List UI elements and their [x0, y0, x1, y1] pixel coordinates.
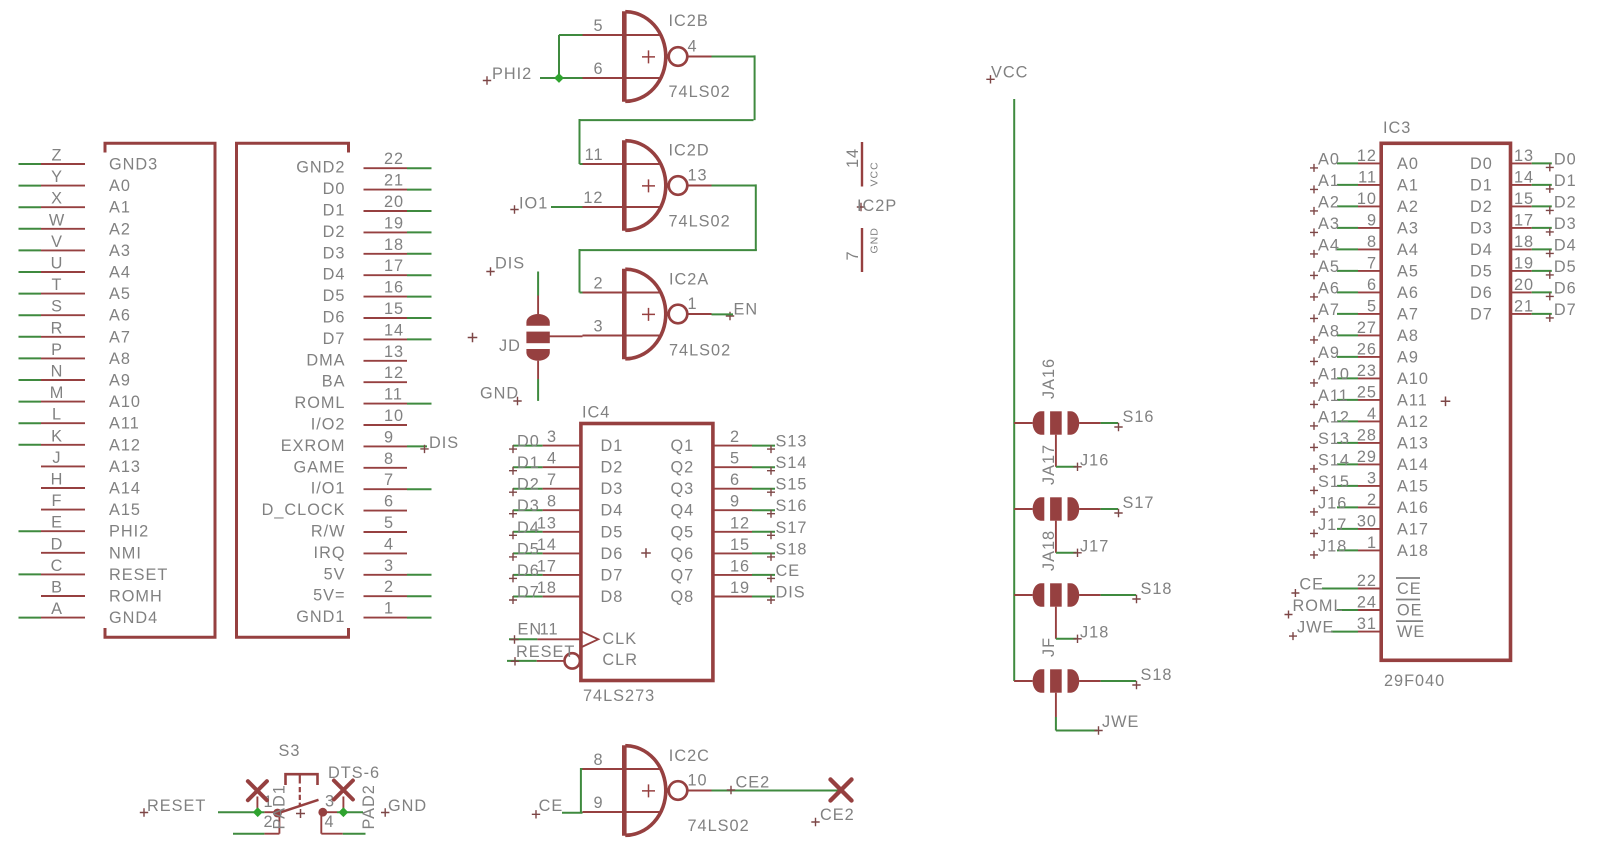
svg-text:14: 14	[844, 148, 862, 168]
svg-text:DMA: DMA	[306, 351, 345, 369]
wire IC2A output to EN label	[712, 313, 734, 315]
connector pin E (PHI2)	[19, 514, 150, 541]
svg-text:5: 5	[384, 514, 394, 532]
net label PHI2	[483, 65, 532, 85]
svg-text:A4: A4	[1318, 236, 1340, 254]
svg-text:Q8: Q8	[671, 588, 695, 606]
IC3 pin 21 D7, net D7	[1470, 297, 1577, 323]
svg-text:A0: A0	[1397, 155, 1419, 173]
svg-text:D6: D6	[517, 562, 540, 580]
svg-text:A10: A10	[109, 393, 141, 411]
IC3 pin 28 A13, net S13	[1310, 426, 1429, 452]
svg-text:VCC: VCC	[869, 161, 881, 186]
svg-text:GND: GND	[480, 385, 519, 403]
IC3 pin 15 D2, net D2	[1470, 190, 1577, 216]
IC4 pin 9 Q4, net S16	[671, 493, 808, 520]
svg-text:CE: CE	[1397, 580, 1422, 598]
svg-text:Q5: Q5	[671, 523, 695, 541]
svg-text:11: 11	[585, 146, 604, 164]
wire S3 pin 2 stub	[233, 833, 264, 835]
svg-text:3: 3	[593, 318, 603, 336]
svg-text:A4: A4	[109, 264, 131, 282]
svg-text:JA16: JA16	[1040, 358, 1058, 399]
svg-text:D2: D2	[1470, 198, 1493, 216]
junction S3 pin 1	[253, 807, 263, 817]
wire/net label S16 (right of JA16)	[1101, 408, 1155, 431]
IC3 pin 25 A11, net A11	[1310, 383, 1428, 409]
svg-text:IC2P: IC2P	[857, 197, 897, 215]
connector pin U (A4)	[19, 255, 131, 282]
IC3 pin 30 A17, net J17	[1310, 512, 1429, 538]
svg-text:D4: D4	[323, 266, 346, 284]
IC4 pin 2 Q1, net S13	[671, 428, 808, 455]
svg-text:25: 25	[1357, 383, 1377, 401]
svg-text:24: 24	[1357, 594, 1377, 612]
svg-text:19: 19	[384, 214, 404, 232]
svg-text:N: N	[51, 363, 64, 381]
svg-text:A5: A5	[1397, 262, 1419, 280]
svg-text:5: 5	[593, 17, 603, 35]
IC3 pin 26 A9, net A9	[1310, 340, 1419, 366]
IC4 pin 1 CLR, net RESET	[507, 643, 638, 669]
svg-text:RESET: RESET	[109, 566, 168, 584]
svg-text:D5: D5	[517, 540, 540, 558]
svg-text:D3: D3	[517, 497, 540, 515]
svg-text:S16: S16	[776, 497, 808, 515]
svg-text:C: C	[51, 557, 64, 575]
svg-text:7: 7	[1367, 254, 1377, 272]
svg-text:D1: D1	[1470, 176, 1493, 194]
svg-text:8: 8	[547, 493, 557, 511]
jumper JA17	[1014, 444, 1101, 521]
svg-text:R: R	[51, 319, 64, 337]
svg-text:GND1: GND1	[296, 608, 345, 626]
svg-text:15: 15	[730, 536, 750, 554]
svg-text:K: K	[51, 427, 63, 445]
svg-text:S17: S17	[776, 519, 808, 537]
svg-text:PAD1: PAD1	[271, 784, 289, 829]
no-connect X on S3 pin 3	[334, 781, 353, 800]
no-connect X on S3 pin 1	[248, 781, 267, 800]
svg-text:Q4: Q4	[671, 502, 695, 520]
svg-text:Q6: Q6	[671, 545, 695, 563]
svg-text:29F040: 29F040	[1384, 672, 1445, 690]
svg-text:Z: Z	[52, 147, 63, 165]
svg-text:A6: A6	[1397, 284, 1419, 302]
svg-text:W: W	[49, 211, 65, 229]
connector pin A (GND4)	[19, 600, 159, 627]
svg-text:18: 18	[537, 579, 557, 597]
origin cross IC3	[1441, 397, 1451, 407]
connector pin 1 (GND1)	[296, 600, 431, 627]
wire S3 pin 3 to GND label	[337, 811, 363, 813]
svg-text:28: 28	[1357, 426, 1377, 444]
svg-text:26: 26	[1357, 340, 1377, 358]
IC4 pin 12 Q5, net S17	[671, 514, 808, 541]
svg-text:L: L	[52, 406, 62, 424]
svg-text:PAD2: PAD2	[360, 784, 378, 829]
svg-text:22: 22	[384, 150, 404, 168]
svg-text:11: 11	[540, 621, 559, 639]
svg-text:D2: D2	[517, 476, 540, 494]
svg-text:RESET: RESET	[516, 643, 575, 661]
svg-text:16: 16	[730, 557, 750, 575]
connector column 2 body (pins 22..1)	[237, 143, 349, 637]
svg-text:21: 21	[1514, 297, 1534, 315]
svg-text:30: 30	[1357, 512, 1377, 530]
wire IC2C output to CE2	[712, 790, 842, 792]
svg-text:J17: J17	[1318, 516, 1347, 534]
svg-text:2: 2	[1367, 491, 1377, 509]
svg-text:A15: A15	[109, 501, 141, 519]
svg-text:20: 20	[384, 193, 404, 211]
connector pin J (A13)	[41, 449, 141, 476]
svg-text:A9: A9	[1318, 344, 1340, 362]
svg-text:A14: A14	[109, 480, 141, 498]
NOR gate IC2A (74LS02)	[583, 269, 732, 360]
IC3 pin 2 A16, net J16	[1310, 491, 1429, 517]
svg-text:S18: S18	[1141, 580, 1173, 598]
svg-text:A16: A16	[1397, 499, 1429, 517]
svg-text:E: E	[51, 514, 63, 532]
svg-text:F: F	[52, 492, 63, 510]
svg-text:H: H	[51, 471, 64, 489]
svg-text:12: 12	[384, 364, 404, 382]
svg-text:M: M	[50, 384, 65, 402]
svg-text:S15: S15	[776, 476, 808, 494]
IC3 pin 18 D4, net D4	[1470, 233, 1577, 259]
svg-text:A8: A8	[1318, 322, 1340, 340]
IC4 pin 5 Q2, net S14	[671, 450, 808, 477]
svg-text:D5: D5	[601, 523, 624, 541]
svg-text:S15: S15	[1318, 473, 1350, 491]
svg-text:S13: S13	[1318, 430, 1350, 448]
connector pin M (A10)	[19, 384, 141, 411]
connector pin P (A8)	[19, 341, 131, 368]
svg-text:29: 29	[1357, 448, 1377, 466]
wire/net label J18 (bottom of JA18)	[1056, 607, 1109, 643]
svg-text:IC2C: IC2C	[669, 747, 710, 765]
svg-text:1: 1	[1367, 534, 1377, 552]
svg-text:A9: A9	[109, 372, 131, 390]
svg-text:16: 16	[384, 279, 404, 297]
power symbol IC2P pin 7 (GND)	[844, 227, 881, 272]
svg-text:A11: A11	[109, 415, 140, 433]
svg-text:D6: D6	[601, 545, 624, 563]
svg-text:A2: A2	[1318, 193, 1340, 211]
IC4 pin 8 D4, net D3	[509, 493, 623, 520]
svg-text:A5: A5	[1318, 258, 1340, 276]
IC3 pin 12 A0, net A0	[1310, 147, 1419, 173]
IC3 pin 9 A3, net A3	[1310, 211, 1419, 237]
connector pin H (A14)	[41, 471, 141, 498]
IC4 pin 3 D1, net D0	[509, 428, 623, 455]
svg-text:A10: A10	[1318, 365, 1350, 383]
svg-text:17: 17	[1514, 211, 1534, 229]
svg-text:A11: A11	[1397, 391, 1428, 409]
svg-text:19: 19	[730, 579, 750, 597]
svg-text:S: S	[51, 298, 63, 316]
svg-text:A2: A2	[1397, 198, 1419, 216]
IC4 pin 4 D2, net D1	[509, 450, 623, 477]
svg-text:J17: J17	[1080, 538, 1109, 556]
svg-text:I/O1: I/O1	[311, 480, 346, 498]
svg-text:9: 9	[384, 428, 394, 446]
svg-text:S16: S16	[1123, 408, 1155, 426]
svg-text:D7: D7	[1554, 301, 1577, 319]
svg-text:T: T	[52, 276, 63, 294]
svg-text:IRQ: IRQ	[314, 544, 346, 562]
connector pin 15 (D6)	[323, 300, 432, 327]
IC3 pin 5 A7, net A7	[1310, 297, 1419, 323]
wire/net label S18 (right of JF)	[1101, 666, 1173, 689]
IC4 pin 15 Q6, net S18	[671, 536, 808, 563]
wire/net label JWE (bottom of JF)	[1056, 693, 1139, 735]
svg-text:A15: A15	[1397, 477, 1429, 495]
NOR gate IC2C (74LS02)	[583, 745, 750, 836]
svg-text:Y: Y	[51, 168, 63, 186]
svg-text:S13: S13	[776, 433, 808, 451]
svg-text:VCC: VCC	[991, 64, 1028, 82]
svg-text:DIS: DIS	[776, 584, 806, 602]
svg-text:8: 8	[593, 751, 603, 769]
svg-text:ROMH: ROMH	[109, 588, 163, 606]
svg-text:NMI: NMI	[109, 544, 142, 562]
svg-text:IC2D: IC2D	[669, 142, 710, 160]
svg-text:D5: D5	[323, 287, 346, 305]
svg-text:D3: D3	[1554, 215, 1577, 233]
IC3 pin 27 A8, net A8	[1310, 319, 1419, 345]
connector pin L (A11)	[19, 406, 140, 433]
IC3 pin 22 CE, net CE	[1291, 572, 1421, 598]
connector pin Z (GND3)	[19, 147, 159, 174]
svg-text:S18: S18	[776, 540, 808, 558]
IC3 pin 3 A15, net S15	[1310, 469, 1429, 495]
svg-text:D7: D7	[323, 330, 346, 348]
svg-text:A10: A10	[1397, 370, 1429, 388]
net label RESET (S3)	[140, 797, 206, 817]
IC3 pin 24 OE, net ROML	[1285, 594, 1423, 620]
svg-text:4: 4	[325, 813, 335, 831]
svg-text:A12: A12	[109, 436, 141, 454]
IC IC3 29F040 body	[1381, 143, 1510, 660]
svg-text:D: D	[51, 535, 64, 553]
svg-text:10: 10	[384, 407, 404, 425]
svg-text:JWE: JWE	[1102, 713, 1139, 731]
connector pin 8 (GAME)	[294, 450, 407, 477]
svg-text:D8: D8	[601, 588, 624, 606]
svg-text:23: 23	[1357, 362, 1377, 380]
wire DIS to JD top	[537, 272, 539, 296]
svg-text:Q7: Q7	[671, 566, 695, 584]
svg-text:21: 21	[384, 172, 404, 190]
IC4 pin 16 Q7, net CE	[671, 557, 801, 584]
connector pin 10 (I/O2)	[311, 407, 407, 434]
svg-text:V: V	[51, 233, 63, 251]
svg-text:18: 18	[1514, 233, 1534, 251]
svg-text:19: 19	[1514, 254, 1534, 272]
svg-text:4: 4	[1367, 405, 1377, 423]
svg-text:CLK: CLK	[602, 630, 637, 648]
svg-text:GND4: GND4	[109, 609, 158, 627]
connector pin T (A5)	[19, 276, 131, 303]
connector pin 9 (EXROM)	[281, 428, 427, 455]
jumper JA18	[1014, 530, 1101, 607]
svg-text:15: 15	[384, 300, 404, 318]
connector pin 11 (ROML)	[294, 386, 431, 413]
svg-text:D3: D3	[323, 244, 346, 262]
svg-text:A3: A3	[1397, 219, 1419, 237]
svg-text:A18: A18	[1397, 542, 1429, 560]
svg-text:20: 20	[1514, 276, 1534, 294]
IC4 pin 6 Q3, net S15	[671, 471, 808, 498]
svg-text:13: 13	[1514, 147, 1534, 165]
svg-text:JA17: JA17	[1040, 444, 1058, 485]
svg-text:RESET: RESET	[147, 797, 206, 815]
connector pin C (RESET)	[19, 557, 169, 584]
svg-text:D6: D6	[1554, 279, 1577, 297]
svg-text:J: J	[52, 449, 61, 467]
connector pin 16 (D5)	[323, 279, 432, 306]
svg-text:D0: D0	[1470, 155, 1493, 173]
svg-text:B: B	[51, 579, 63, 597]
label IC2P	[857, 197, 897, 215]
svg-text:D5: D5	[1470, 262, 1493, 280]
svg-text:IC4: IC4	[582, 404, 610, 422]
switch S3 (DTS-6)	[257, 742, 380, 834]
svg-text:R/W: R/W	[311, 523, 346, 541]
IC4 pin 13 D5, net D4	[509, 514, 623, 541]
svg-text:14: 14	[1514, 168, 1534, 186]
svg-text:17: 17	[537, 557, 557, 575]
IC3 pin 6 A6, net A6	[1310, 276, 1419, 302]
connector pin D (NMI)	[41, 535, 142, 562]
IC3 pin 8 A4, net A4	[1310, 233, 1419, 259]
svg-text:5: 5	[730, 450, 740, 468]
wire RESET to S3	[218, 811, 264, 813]
wire/net label J16 (bottom of JA16)	[1056, 435, 1109, 471]
svg-text:15: 15	[1514, 190, 1534, 208]
svg-text:DIS: DIS	[429, 434, 459, 452]
IC3 pin 11 A1, net A1	[1310, 168, 1419, 194]
svg-text:CE: CE	[1299, 576, 1324, 594]
junction on PHI2 net	[554, 73, 564, 83]
svg-text:31: 31	[1357, 615, 1377, 633]
svg-text:OE: OE	[1397, 602, 1423, 620]
svg-text:D3: D3	[601, 480, 624, 498]
svg-text:D4: D4	[601, 502, 624, 520]
svg-text:J18: J18	[1080, 624, 1109, 642]
svg-text:J18: J18	[1318, 537, 1347, 555]
svg-text:5V: 5V	[324, 565, 346, 583]
svg-text:J16: J16	[1080, 452, 1109, 470]
IC4 pin 7 D3, net D2	[509, 471, 623, 498]
svg-text:4: 4	[688, 38, 698, 56]
origin cross IC4	[641, 548, 651, 558]
svg-text:CE2: CE2	[820, 806, 855, 824]
IC4 pin 17 D7, net D6	[509, 557, 623, 584]
svg-text:22: 22	[1357, 572, 1377, 590]
svg-text:JD: JD	[499, 337, 521, 355]
svg-text:S14: S14	[1318, 451, 1350, 469]
svg-text:A3: A3	[109, 242, 131, 260]
IC3 pin 7 A5, net A5	[1310, 254, 1419, 280]
svg-text:7: 7	[547, 471, 557, 489]
svg-text:2: 2	[384, 578, 394, 596]
NOR gate IC2B (74LS02)	[583, 11, 731, 102]
svg-text:ROML: ROML	[294, 394, 345, 412]
svg-text:11: 11	[1358, 168, 1377, 186]
connector pin 2 (5V=)	[313, 578, 431, 605]
svg-text:12: 12	[730, 514, 750, 532]
svg-text:9: 9	[593, 794, 603, 812]
svg-text:A8: A8	[1397, 327, 1419, 345]
net label VCC	[986, 64, 1028, 84]
svg-text:DIS: DIS	[495, 255, 525, 273]
wire/net label S17 (right of JA17)	[1101, 494, 1155, 517]
net label CE2 (on wire)	[727, 774, 770, 795]
svg-text:17: 17	[384, 257, 404, 275]
connector pin N (A9)	[19, 363, 131, 390]
svg-text:GND: GND	[388, 797, 427, 815]
svg-text:8: 8	[1367, 233, 1377, 251]
svg-text:I/O2: I/O2	[311, 416, 346, 434]
svg-text:A5: A5	[109, 285, 131, 303]
junction S3 pin 3	[339, 807, 349, 817]
svg-text:A7: A7	[1397, 305, 1419, 323]
svg-text:D_CLOCK: D_CLOCK	[262, 501, 346, 519]
net label CE (IC2C input)	[532, 797, 563, 819]
svg-text:CE2: CE2	[736, 774, 771, 792]
svg-text:A6: A6	[1318, 279, 1340, 297]
svg-text:IC3: IC3	[1383, 119, 1411, 137]
connector pin B (ROMH)	[41, 579, 163, 606]
svg-text:1: 1	[384, 600, 394, 618]
connector pin 14 (D7)	[323, 321, 432, 348]
svg-text:Q2: Q2	[671, 459, 695, 477]
IC4 pin 11 CLK, net EN	[509, 621, 637, 648]
svg-text:JWE: JWE	[1297, 619, 1334, 637]
svg-text:A14: A14	[1397, 456, 1429, 474]
svg-text:A1: A1	[109, 199, 131, 217]
jumper JD	[468, 296, 583, 380]
connector pin 20 (D1)	[323, 193, 432, 220]
svg-text:4: 4	[547, 450, 557, 468]
svg-text:D4: D4	[517, 519, 540, 537]
svg-text:6: 6	[730, 471, 740, 489]
net label GND (bottom of JD)	[480, 385, 522, 406]
svg-text:IC2B: IC2B	[669, 12, 709, 30]
connector pin 17 (D4)	[323, 257, 432, 284]
svg-text:IO1: IO1	[519, 195, 548, 213]
svg-text:P: P	[51, 341, 63, 359]
IC3 pin 20 D6, net D6	[1470, 276, 1577, 302]
svg-text:A7: A7	[1318, 301, 1340, 319]
svg-text:Q1: Q1	[671, 437, 695, 455]
svg-text:CE: CE	[776, 562, 801, 580]
connector pin K (A12)	[19, 427, 141, 454]
svg-text:A0: A0	[109, 177, 131, 195]
svg-text:A4: A4	[1397, 241, 1419, 259]
connector pin 6 (D_CLOCK)	[262, 493, 407, 519]
svg-text:6: 6	[1367, 276, 1377, 294]
svg-text:2: 2	[593, 275, 603, 293]
jumper JF	[1014, 637, 1101, 693]
svg-text:D6: D6	[323, 309, 346, 327]
wire S3 pin 4 stub	[343, 833, 366, 835]
connector pin Y (A0)	[19, 168, 131, 195]
connector pin 19 (D2)	[323, 214, 432, 241]
